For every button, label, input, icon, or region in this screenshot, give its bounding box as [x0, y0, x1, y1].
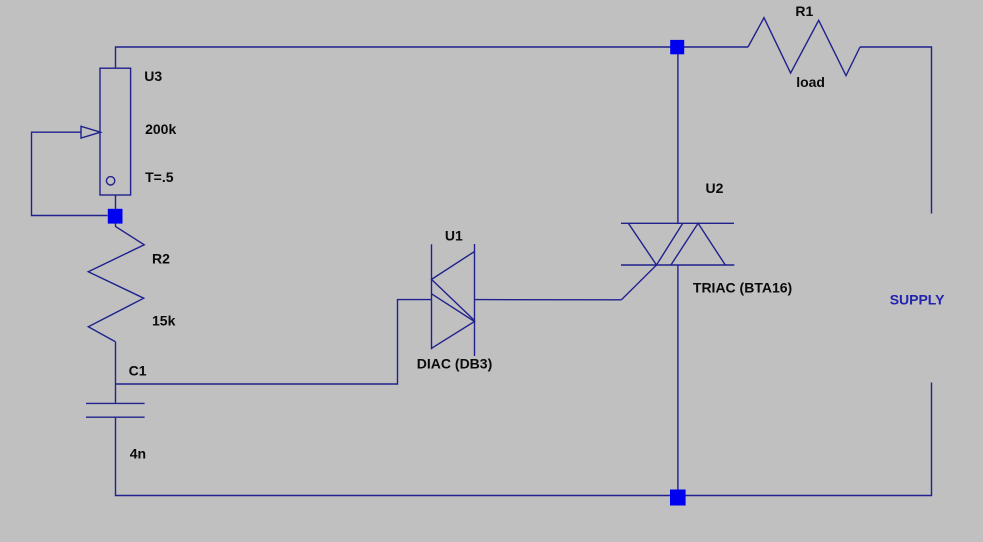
- diac U1 left bar: [431, 244, 433, 349]
- svg-text:U3: U3: [144, 68, 162, 84]
- svg-text:U1: U1: [445, 228, 463, 244]
- potentiometer U3 body: [100, 68, 131, 195]
- wire C1 node to diac: [116, 300, 432, 384]
- svg-text:load: load: [796, 74, 825, 90]
- wire top rail left: [116, 47, 749, 68]
- triac U2 top bar: [621, 222, 734, 224]
- node junction top rail / triac: [670, 40, 684, 54]
- wire R2 to C1: [115, 342, 117, 404]
- svg-text:DIAC (DB3): DIAC (DB3): [417, 356, 492, 372]
- node junction bottom rail / triac: [670, 490, 686, 506]
- svg-text:U2: U2: [706, 180, 724, 196]
- svg-text:4n: 4n: [130, 446, 146, 462]
- svg-text:T=.5: T=.5: [145, 169, 174, 185]
- node junction at U3 wiper/R2: [108, 209, 123, 224]
- wire U3 bottom pin: [115, 195, 117, 210]
- wire wiper loop: [32, 132, 108, 215]
- svg-text:SUPPLY: SUPPLY: [890, 292, 945, 308]
- triac U2 bottom bar: [621, 264, 734, 266]
- svg-text:TRIAC (BTA16): TRIAC (BTA16): [693, 280, 792, 296]
- wire top rail right: [860, 47, 932, 214]
- resistor R1: [748, 18, 860, 76]
- diac U1 upper triangle: [432, 252, 475, 321]
- wire supply bottom right: [116, 383, 932, 496]
- capacitor C1 top plate: [86, 402, 145, 404]
- diac U1 right bar: [474, 244, 476, 356]
- resistor R2: [88, 222, 144, 342]
- triac U2 right triangle: [671, 223, 725, 265]
- wire triac top pin: [677, 47, 679, 223]
- svg-text:C1: C1: [129, 362, 147, 378]
- diac U1 lower triangle: [432, 294, 475, 349]
- svg-text:15k: 15k: [152, 312, 176, 328]
- svg-text:200k: 200k: [145, 121, 176, 137]
- svg-text:R1: R1: [795, 3, 813, 19]
- triac U2 gate lead: [621, 265, 656, 300]
- wire diac to triac gate: [475, 299, 622, 301]
- svg-text:R2: R2: [152, 251, 170, 267]
- potentiometer U3 circle: [106, 177, 114, 185]
- triac U2 left triangle: [628, 223, 682, 265]
- potentiometer U3 wiper arrow: [81, 126, 101, 138]
- capacitor C1 bottom plate: [86, 416, 145, 418]
- wire triac bottom pin: [677, 265, 679, 496]
